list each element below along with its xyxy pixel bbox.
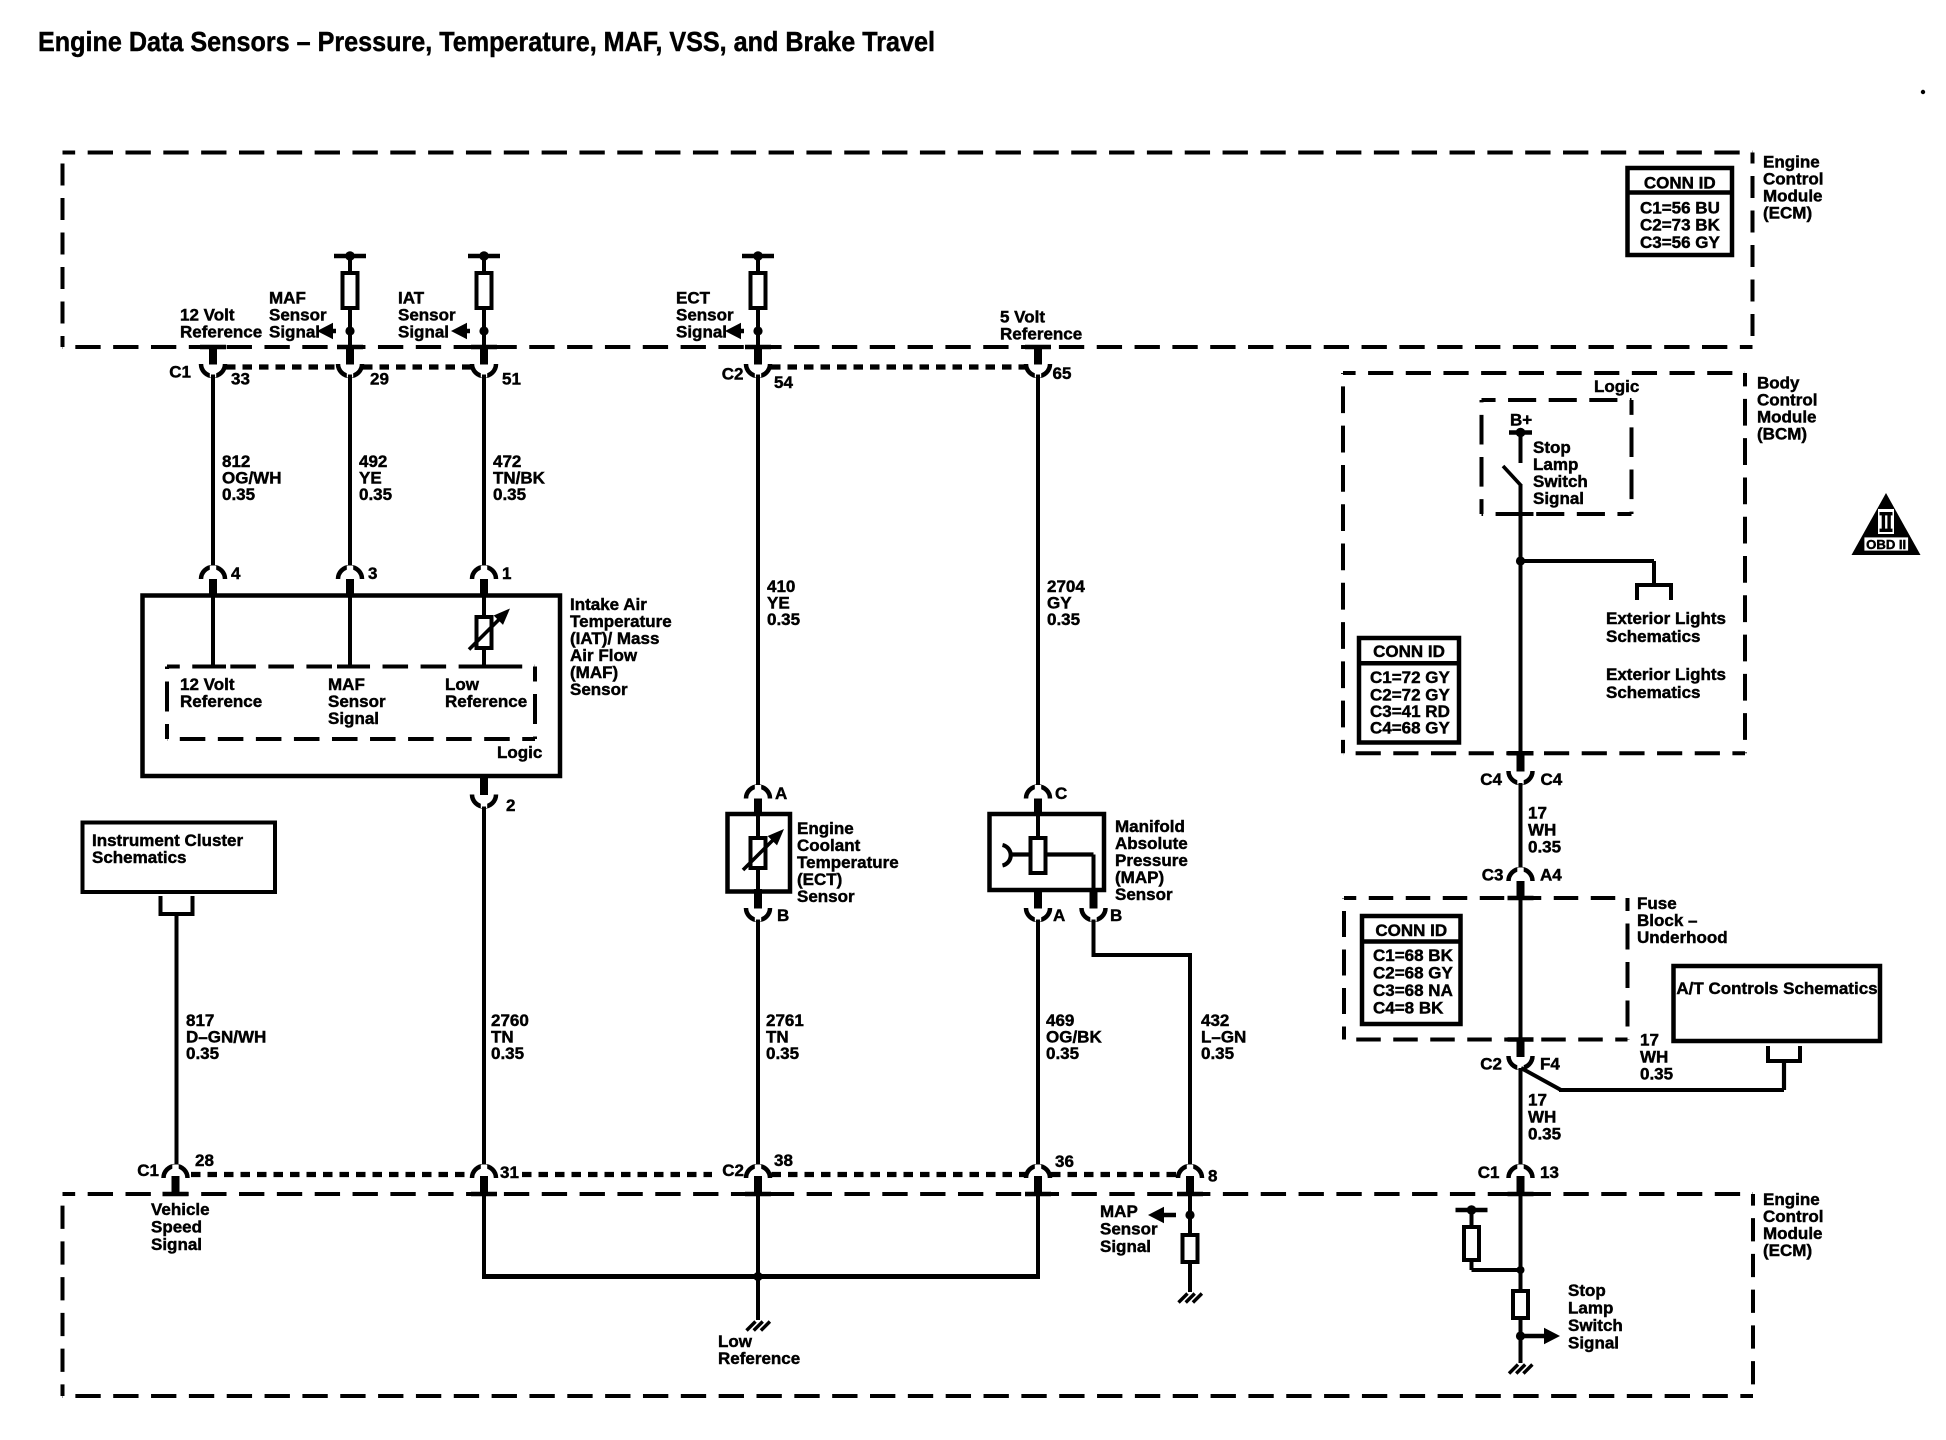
svg-text:13: 13	[1540, 1163, 1559, 1182]
svg-text:0.35: 0.35	[1046, 1044, 1079, 1063]
svg-text:C1: C1	[137, 1161, 159, 1180]
svg-text:C4=68 GY: C4=68 GY	[1370, 719, 1451, 738]
svg-text:0.35: 0.35	[222, 485, 255, 504]
svg-text:4: 4	[231, 564, 241, 583]
svg-text:Reference: Reference	[180, 692, 262, 711]
svg-text:Stop: Stop	[1568, 1281, 1606, 1300]
svg-text:C2: C2	[722, 365, 744, 384]
svg-text:33: 33	[231, 370, 250, 389]
svg-text:Schematics: Schematics	[1606, 683, 1701, 702]
svg-text:65: 65	[1053, 364, 1072, 383]
svg-text:C2: C2	[722, 1161, 744, 1180]
svg-text:(ECM): (ECM)	[1763, 204, 1812, 223]
svg-text:0.35: 0.35	[1640, 1065, 1673, 1084]
svg-text:0.35: 0.35	[766, 1044, 799, 1063]
svg-text:38: 38	[774, 1151, 793, 1170]
svg-text:B+: B+	[1510, 411, 1532, 430]
svg-text:C1=56 BU: C1=56 BU	[1640, 198, 1720, 217]
svg-text:C1: C1	[169, 363, 191, 382]
svg-text:3: 3	[368, 564, 377, 583]
svg-text:Signal: Signal	[151, 1235, 202, 1254]
svg-text:Switch: Switch	[1568, 1316, 1623, 1335]
svg-text:B: B	[777, 906, 789, 925]
svg-text:B: B	[1110, 906, 1122, 925]
svg-text:C3: C3	[1482, 866, 1504, 885]
svg-text:A: A	[775, 784, 787, 803]
svg-text:31: 31	[500, 1163, 519, 1182]
svg-text:0.35: 0.35	[186, 1044, 219, 1063]
svg-text:C2=73 BK: C2=73 BK	[1640, 216, 1721, 235]
svg-text:Sensor: Sensor	[797, 887, 855, 906]
svg-text:Logic: Logic	[1594, 377, 1639, 396]
svg-text:C4=8 BK: C4=8 BK	[1373, 999, 1444, 1018]
svg-text:C1=72 GY: C1=72 GY	[1370, 668, 1451, 687]
svg-text:Signal: Signal	[1533, 489, 1584, 508]
svg-text:Reference: Reference	[445, 692, 527, 711]
svg-text:29: 29	[370, 370, 389, 389]
svg-text:54: 54	[774, 373, 793, 392]
svg-text:C: C	[1055, 784, 1067, 803]
svg-text:Sensor: Sensor	[1100, 1220, 1158, 1239]
svg-text:C3=68 NA: C3=68 NA	[1373, 981, 1453, 1000]
svg-text:Exterior Lights: Exterior Lights	[1606, 609, 1726, 628]
svg-text:0.35: 0.35	[493, 485, 526, 504]
svg-text:C4: C4	[1480, 770, 1502, 789]
svg-text:C1=68 BK: C1=68 BK	[1373, 946, 1454, 965]
svg-text:C2=68 GY: C2=68 GY	[1373, 964, 1454, 983]
svg-text:A4: A4	[1540, 866, 1562, 885]
svg-text:Reference: Reference	[180, 323, 262, 342]
svg-text:Underhood: Underhood	[1637, 928, 1728, 947]
svg-text:Signal: Signal	[328, 709, 379, 728]
svg-text:CONN ID: CONN ID	[1375, 921, 1447, 940]
svg-text:36: 36	[1055, 1152, 1074, 1171]
svg-text:0.35: 0.35	[1201, 1044, 1234, 1063]
svg-text:C4: C4	[1541, 770, 1563, 789]
svg-text:Signal: Signal	[398, 323, 449, 342]
svg-text:C1: C1	[1478, 1163, 1500, 1182]
svg-text:Schematics: Schematics	[1606, 627, 1701, 646]
svg-text:51: 51	[502, 370, 521, 389]
svg-text:Signal: Signal	[269, 323, 320, 342]
svg-text:0.35: 0.35	[767, 610, 800, 629]
svg-text:28: 28	[195, 1151, 214, 1170]
svg-text:MAP: MAP	[1100, 1202, 1138, 1221]
svg-text:(BCM): (BCM)	[1757, 425, 1807, 444]
svg-text:0.35: 0.35	[359, 485, 392, 504]
svg-text:Sensor: Sensor	[570, 680, 628, 699]
svg-text:0.35: 0.35	[1047, 610, 1080, 629]
svg-text:C2: C2	[1480, 1055, 1502, 1074]
svg-text:Engine Data Sensors – Pressure: Engine Data Sensors – Pressure, Temperat…	[38, 26, 935, 57]
svg-text:C3=56 GY: C3=56 GY	[1640, 233, 1721, 252]
svg-text:Reference: Reference	[1000, 325, 1082, 344]
svg-text:CONN ID: CONN ID	[1373, 642, 1445, 661]
svg-text:Sensor: Sensor	[1115, 885, 1173, 904]
svg-text:Signal: Signal	[1100, 1237, 1151, 1256]
svg-text:(ECM): (ECM)	[1763, 1241, 1812, 1260]
svg-text:Exterior Lights: Exterior Lights	[1606, 665, 1726, 684]
svg-text:F4: F4	[1540, 1055, 1560, 1074]
svg-text:0.35: 0.35	[1528, 838, 1561, 857]
svg-text:0.35: 0.35	[491, 1044, 524, 1063]
svg-text:0.35: 0.35	[1528, 1125, 1561, 1144]
svg-text:Signal: Signal	[676, 323, 727, 342]
svg-text:Signal: Signal	[1568, 1334, 1619, 1353]
svg-text:2: 2	[506, 796, 515, 815]
svg-text:Speed: Speed	[151, 1218, 202, 1237]
svg-text:Lamp: Lamp	[1568, 1299, 1613, 1318]
svg-text:A/T Controls Schematics: A/T Controls Schematics	[1676, 979, 1877, 998]
svg-text:8: 8	[1208, 1167, 1217, 1186]
svg-text:Vehicle: Vehicle	[151, 1200, 210, 1219]
svg-text:Schematics: Schematics	[92, 848, 187, 867]
svg-text:OBD II: OBD II	[1866, 538, 1906, 552]
svg-text:Logic: Logic	[497, 743, 542, 762]
svg-text:1: 1	[502, 564, 511, 583]
svg-text:CONN ID: CONN ID	[1644, 173, 1716, 192]
svg-text:Reference: Reference	[718, 1349, 800, 1368]
svg-text:A: A	[1053, 906, 1065, 925]
